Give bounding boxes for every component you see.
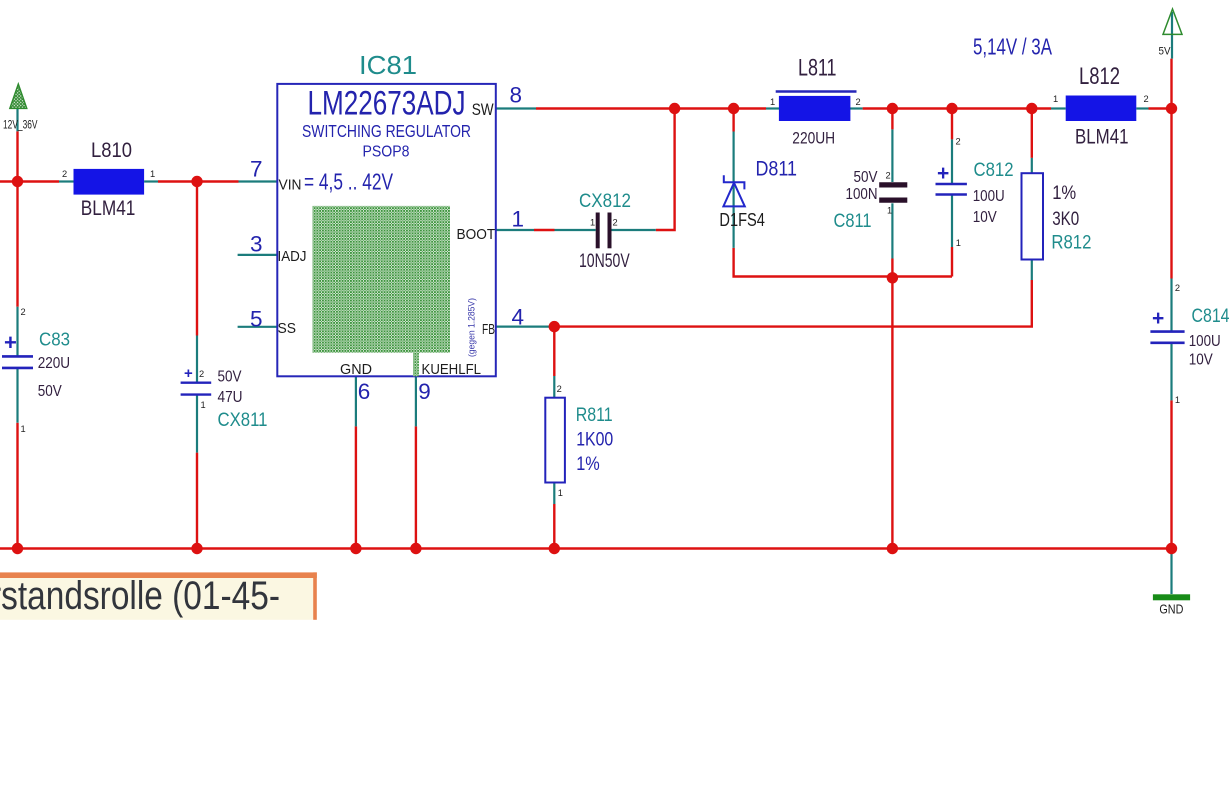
svg-text:+: + <box>4 330 17 355</box>
svg-text:GND: GND <box>340 361 372 378</box>
svg-text:3: 3 <box>250 232 263 257</box>
svg-text:10V: 10V <box>973 209 997 226</box>
svg-text:1: 1 <box>887 206 892 216</box>
svg-text:R811: R811 <box>576 405 613 426</box>
svg-text:50V: 50V <box>854 169 878 186</box>
svg-text:4: 4 <box>512 305 525 330</box>
svg-text:9: 9 <box>418 379 431 404</box>
svg-text:CX812: CX812 <box>579 191 631 212</box>
svg-text:1: 1 <box>21 424 26 434</box>
svg-text:220UH: 220UH <box>792 129 835 148</box>
svg-text:2: 2 <box>199 369 204 379</box>
svg-text:1: 1 <box>1053 94 1058 104</box>
svg-text:1: 1 <box>150 169 155 179</box>
svg-text:L811: L811 <box>798 55 837 82</box>
svg-text:1: 1 <box>201 400 206 410</box>
svg-text:2: 2 <box>557 384 562 394</box>
svg-text:SS: SS <box>278 320 297 337</box>
svg-text:2: 2 <box>21 307 26 317</box>
svg-text:2: 2 <box>1144 94 1149 104</box>
svg-text:D1FS4: D1FS4 <box>719 210 765 230</box>
svg-text:50V: 50V <box>218 369 242 386</box>
svg-text:+: + <box>1152 307 1164 330</box>
svg-text:C814: C814 <box>1192 306 1230 327</box>
svg-text:5: 5 <box>250 307 263 332</box>
svg-text:2: 2 <box>613 218 618 228</box>
svg-text:KUEHLFL: KUEHLFL <box>422 361 482 378</box>
svg-text:LM22673ADJ: LM22673ADJ <box>308 85 466 123</box>
svg-text:1: 1 <box>1175 395 1180 405</box>
svg-text:12V_36V: 12V_36V <box>3 120 38 132</box>
svg-text:C83: C83 <box>39 330 70 350</box>
svg-text:47U: 47U <box>218 389 243 406</box>
svg-text:SWITCHING REGULATOR: SWITCHING REGULATOR <box>302 121 471 141</box>
svg-text:BLM41: BLM41 <box>81 197 136 220</box>
svg-text:SW: SW <box>472 100 494 119</box>
svg-text:7: 7 <box>250 157 263 182</box>
svg-text:PSOP8: PSOP8 <box>363 144 410 161</box>
svg-text:= 4,5 .. 42V: = 4,5 .. 42V <box>304 169 393 195</box>
svg-text:1: 1 <box>512 207 525 232</box>
svg-text:10V: 10V <box>1189 352 1213 369</box>
svg-text:100N: 100N <box>846 186 878 203</box>
svg-text:+: + <box>184 365 193 382</box>
svg-text:L810: L810 <box>91 139 132 162</box>
svg-text:BLM41: BLM41 <box>1075 126 1129 149</box>
svg-text:1: 1 <box>956 238 961 248</box>
svg-text:2: 2 <box>62 169 67 179</box>
svg-text:FB: FB <box>482 321 495 338</box>
svg-text:6: 6 <box>358 379 371 404</box>
svg-text:R812: R812 <box>1051 233 1091 254</box>
svg-text:1: 1 <box>770 97 775 107</box>
svg-text:2: 2 <box>956 137 961 147</box>
svg-text:C811: C811 <box>834 211 872 232</box>
svg-text:rstandsrolle (01-45-: rstandsrolle (01-45- <box>0 574 280 618</box>
svg-text:1%: 1% <box>576 454 600 475</box>
svg-text:1%: 1% <box>1052 183 1076 204</box>
svg-text:C812: C812 <box>974 160 1014 181</box>
svg-text:8: 8 <box>510 83 523 108</box>
svg-text:10N50V: 10N50V <box>579 251 630 272</box>
svg-text:1: 1 <box>558 488 563 498</box>
svg-text:L812: L812 <box>1079 63 1120 90</box>
svg-text:IC81: IC81 <box>359 50 417 80</box>
svg-text:100U: 100U <box>1189 333 1221 350</box>
svg-text:IADJ: IADJ <box>278 248 307 265</box>
svg-text:(gegen 1.285V): (gegen 1.285V) <box>467 298 478 357</box>
svg-text:2: 2 <box>886 171 891 181</box>
svg-text:D811: D811 <box>756 158 798 181</box>
svg-text:2: 2 <box>1175 283 1180 293</box>
svg-text:220U: 220U <box>38 355 70 372</box>
svg-text:100U: 100U <box>973 188 1005 205</box>
svg-text:+: + <box>937 162 949 185</box>
svg-text:5V: 5V <box>1159 46 1172 58</box>
svg-text:2: 2 <box>856 97 861 107</box>
svg-text:VIN: VIN <box>279 177 302 194</box>
svg-text:GND: GND <box>1159 602 1183 617</box>
svg-text:5,14V / 3A: 5,14V / 3A <box>973 34 1052 60</box>
svg-text:1: 1 <box>590 218 595 228</box>
svg-text:BOOT: BOOT <box>457 226 496 243</box>
svg-text:3K0: 3K0 <box>1052 209 1079 230</box>
svg-text:50V: 50V <box>38 383 62 400</box>
svg-text:1K00: 1K00 <box>576 430 613 451</box>
svg-text:CX811: CX811 <box>218 410 268 431</box>
